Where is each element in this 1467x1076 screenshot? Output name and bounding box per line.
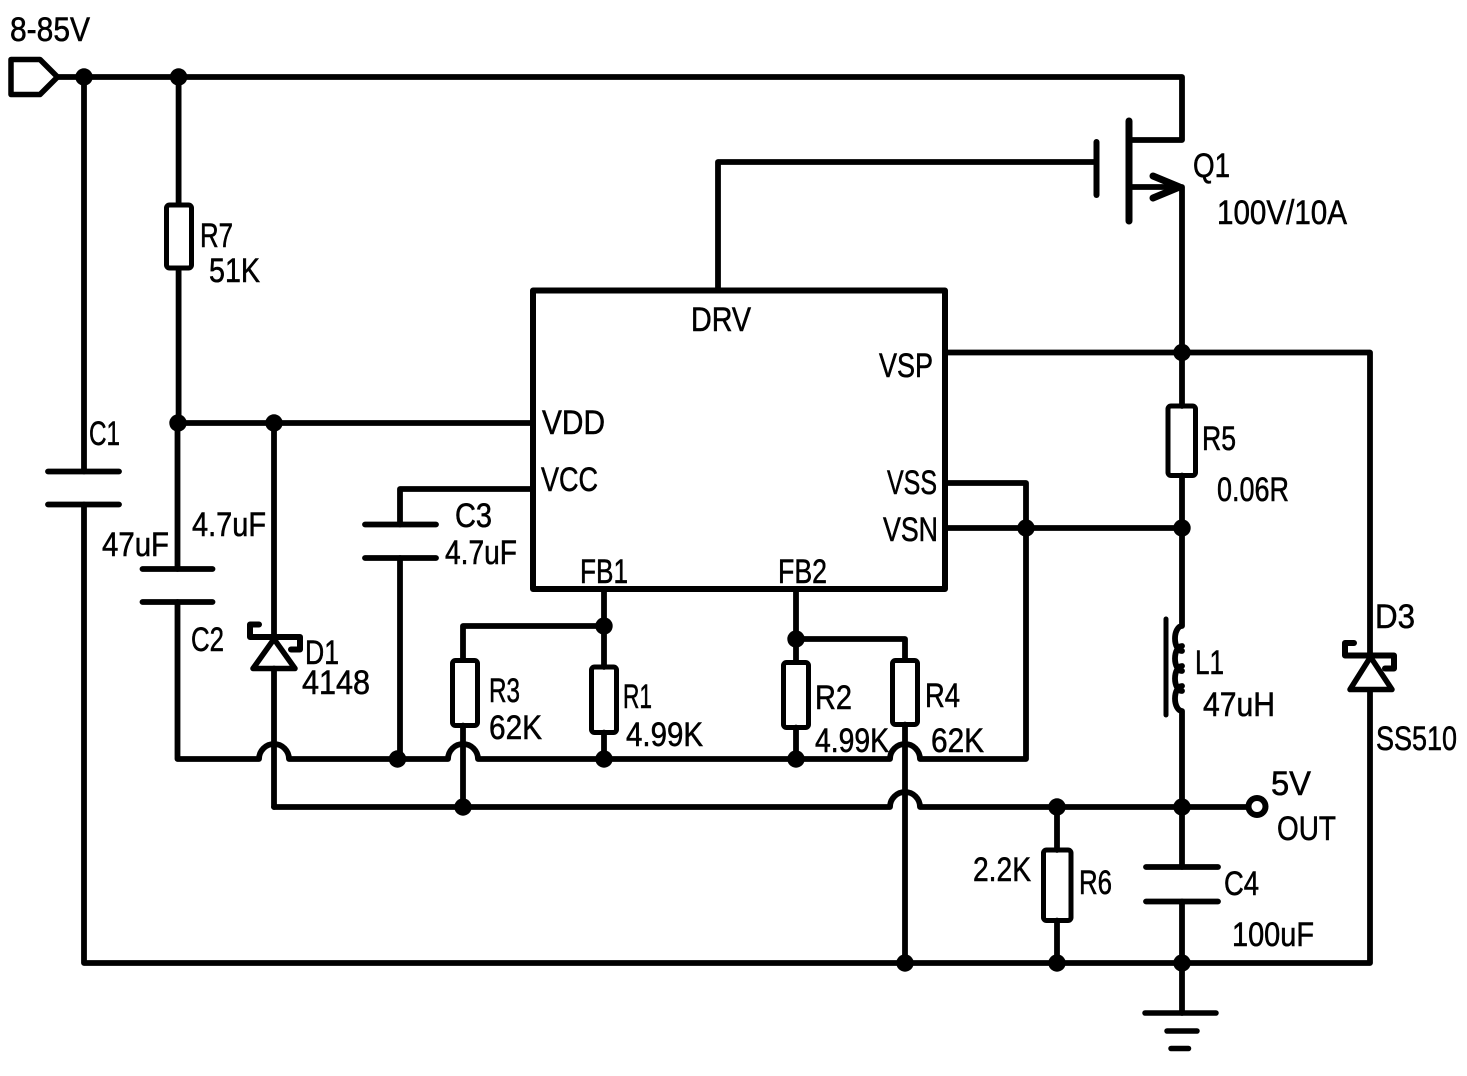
IC U1 body	[533, 291, 945, 590]
junction dot VSS VSN	[1017, 519, 1034, 536]
inductor L1 leads and coil	[1175, 528, 1182, 807]
junction dot VSP Q1 source	[1173, 344, 1190, 361]
svg-text:51K: 51K	[209, 252, 260, 290]
diode D1 bottom lead	[271, 669, 277, 808]
junction dot VSN R5	[1173, 519, 1190, 536]
junction dot ground rail R4	[896, 954, 913, 971]
wire R6 top lead	[1054, 807, 1060, 850]
svg-text:62K: 62K	[489, 709, 542, 747]
output terminal 5V OUT	[1249, 798, 1266, 815]
svg-text:SS510: SS510	[1376, 720, 1457, 758]
svg-text:C1: C1	[89, 415, 120, 453]
wire FB1 pin	[601, 589, 607, 626]
wire DRV to gate	[718, 162, 1097, 291]
junction dot FB2	[787, 630, 804, 647]
wire mid rail with hops and VSS link	[178, 483, 1027, 759]
diode D1 triangle	[253, 639, 295, 669]
wire R2 top lead	[793, 639, 799, 662]
svg-text:62K: 62K	[931, 722, 984, 760]
svg-text:R2: R2	[815, 679, 852, 717]
svg-text:D3: D3	[1375, 598, 1415, 636]
wire top rail from input to Q1 drain	[57, 77, 1182, 140]
ground	[1179, 963, 1185, 1013]
svg-text:FB2: FB2	[778, 553, 827, 591]
svg-text:FB1: FB1	[580, 553, 628, 591]
svg-text:R6: R6	[1079, 864, 1112, 902]
diode D1 top lead	[271, 423, 277, 637]
svg-text:VDD: VDD	[542, 404, 605, 442]
capacitor C3 bottom lead	[397, 558, 403, 759]
svg-text:VSN: VSN	[883, 511, 938, 549]
diode D1 schottky bar	[250, 625, 300, 650]
junction dot VDD rail D1	[265, 414, 282, 431]
svg-text:VSS: VSS	[887, 464, 937, 502]
svg-text:C4: C4	[1224, 865, 1259, 903]
junction dot input rail R7	[170, 68, 187, 85]
svg-text:R4: R4	[925, 677, 960, 715]
resistor R1	[592, 667, 617, 733]
inductor L1 core bar	[1164, 619, 1169, 715]
wire VSP rail to D3 top	[945, 353, 1370, 656]
capacitor C4 plates	[1146, 864, 1218, 870]
svg-text:5V: 5V	[1271, 765, 1311, 803]
wire R5 top lead	[1179, 353, 1185, 407]
junction dot input rail C1	[75, 68, 92, 85]
junction dot mid rail C3	[389, 750, 406, 767]
capacitor C1 top lead	[81, 77, 87, 472]
junction dot ground rail C4	[1173, 954, 1190, 971]
capacitor C2 top lead	[175, 423, 181, 569]
wire R1 bottom lead	[601, 733, 607, 760]
svg-text:4.7uF: 4.7uF	[192, 506, 266, 544]
wire R2 bottom lead	[793, 728, 799, 760]
svg-text:VSP: VSP	[879, 347, 933, 385]
transistor Q1 gate bar	[1094, 142, 1100, 195]
wire Q1 source to VSP junction	[1129, 187, 1182, 353]
svg-text:VCC: VCC	[541, 461, 598, 499]
junction dot VDD rail C2	[169, 414, 186, 431]
svg-text:47uF: 47uF	[102, 526, 169, 564]
svg-text:DRV: DRV	[691, 301, 751, 339]
svg-text:C2: C2	[191, 621, 224, 659]
transistor Q1 channel bar	[1126, 121, 1133, 221]
svg-text:L1: L1	[1195, 644, 1224, 682]
resistor R4	[893, 661, 918, 725]
capacitor C4 top lead	[1179, 807, 1185, 867]
svg-text:4.99K: 4.99K	[815, 722, 889, 760]
svg-text:8-85V: 8-85V	[10, 11, 90, 49]
wire C1 bottom / ground rail / D3 bottom lead	[84, 505, 1370, 964]
svg-text:2.2K: 2.2K	[973, 851, 1031, 889]
wire R6 bottom lead	[1054, 921, 1060, 964]
input terminal 8-85V	[11, 60, 58, 95]
resistor R3	[453, 661, 478, 726]
wire OUT rail	[274, 792, 1249, 807]
wire VDD rail	[178, 420, 533, 426]
wire R4 bottom lead through hops	[902, 725, 908, 964]
wire R3 bottom lead	[460, 726, 466, 808]
diode D3 triangle	[1350, 657, 1392, 690]
junction dot OUT rail R3	[454, 798, 471, 815]
capacitor C4 bottom lead	[1179, 902, 1185, 964]
resistor R7	[167, 205, 192, 268]
junction dot mid rail R2	[787, 750, 804, 767]
wire FB2 to R4	[796, 639, 905, 658]
capacitor C1 plates	[48, 469, 119, 475]
capacitor C2 plates	[143, 566, 213, 572]
svg-text:0.06R: 0.06R	[1217, 471, 1289, 509]
svg-text:R5: R5	[1202, 420, 1236, 458]
wire R5 bottom lead	[1179, 476, 1185, 529]
wire R1 top lead	[601, 626, 607, 667]
svg-text:OUT: OUT	[1277, 810, 1336, 848]
capacitor C3 plates	[365, 522, 436, 528]
svg-text:4148: 4148	[302, 664, 370, 702]
svg-text:47uH: 47uH	[1203, 686, 1275, 724]
wire FB2 pin	[793, 589, 799, 639]
svg-text:4.7uF: 4.7uF	[445, 534, 517, 572]
junction dot OUT rail R6	[1048, 798, 1065, 815]
resistor R2	[784, 663, 809, 728]
svg-text:100V/10A: 100V/10A	[1217, 194, 1347, 232]
wire VCC to C3	[400, 489, 533, 525]
transistor Q1 source arrow	[1153, 176, 1180, 198]
resistor R7 leads	[176, 77, 182, 203]
svg-text:100uF: 100uF	[1232, 916, 1314, 954]
resistor R5	[1168, 406, 1196, 476]
svg-text:R3: R3	[489, 672, 520, 710]
svg-text:4.99K: 4.99K	[626, 716, 703, 754]
wire VSN rail	[945, 525, 1182, 531]
svg-text:R7: R7	[200, 217, 233, 255]
resistor R6	[1044, 850, 1072, 921]
diode D3 schottky bar	[1345, 643, 1394, 669]
svg-text:C3: C3	[455, 497, 492, 535]
wire FB1 to R3	[463, 626, 604, 658]
svg-text:Q1: Q1	[1193, 147, 1230, 185]
junction dot mid rail R1	[595, 750, 612, 767]
junction dot OUT rail C4	[1173, 798, 1190, 815]
svg-text:R1: R1	[623, 678, 652, 716]
junction dot FB1	[595, 617, 612, 634]
junction dot ground rail R6	[1048, 954, 1065, 971]
